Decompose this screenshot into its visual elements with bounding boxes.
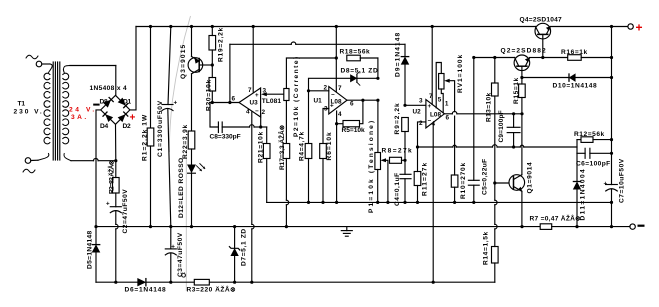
wire U2 pin2 with riser to feedback line [418,122,426,147]
svg-text:R19=2,2k: R19=2,2k [218,27,225,62]
capacitor C9 100pF [507,114,520,147]
wire bridge plus up to top rail [130,27,136,110]
wire drive line y57.5 (C5 top to Q2) [472,56,514,59]
resistor R22 3.9k [188,131,195,165]
resistor R15 1k [519,76,526,114]
svg-text:C5=0,22uF: C5=0,22uF [482,159,489,195]
resistor R2 82 ohm [113,161,120,207]
svg-text:+: + [330,103,334,110]
svg-text:2: 2 [419,120,423,127]
svg-text:2: 2 [262,109,266,116]
capacitor C8 330pF [210,103,267,133]
wire U1 pin2 [307,89,329,92]
wire bridge minus down to 0V rail [96,110,101,227]
output terminal minus [630,224,645,229]
AC input terminal top [26,55,50,67]
svg-text:R13=10k: R13=10k [486,92,493,122]
svg-text:4: 4 [246,109,250,116]
svg-text:1: 1 [445,101,449,108]
trimmer RV1 100k [439,74,455,148]
wire bridge bottom to R2 [115,124,117,160]
svg-text:−: − [428,118,432,125]
wire current-limit line to D9 (hop at 293.5) [230,42,405,44]
minus sign at bridge [93,104,99,106]
capacitor C6 100pF [577,140,613,159]
diode D2 (bottom-right edge) [118,112,128,122]
svg-text:R12=56k: R12=56k [574,131,605,138]
wire secondary top to bridge [70,66,116,96]
wire U2 pin3 [405,104,426,106]
wire feedback line y147 (pin2 node to R12/C6) [416,145,577,149]
resistor R21 10k [263,127,270,202]
svg-text:Ö: Ö [181,271,186,280]
wire U1 pin4 down to sense rail with R5 tap [335,111,338,204]
svg-text:R1=2,2k 1W: R1=2,2k 1W [142,114,149,161]
svg-text:TL081: TL081 [262,98,282,105]
svg-text:RV1=100k: RV1=100k [457,54,464,93]
svg-text:+: + [171,244,175,251]
wire U2 output to Q2 base column (hop over wiper) [444,112,523,116]
svg-text:5: 5 [438,97,442,104]
svg-text:R10=270k: R10=270k [460,162,467,199]
svg-text:7: 7 [338,85,342,92]
resistor R11 27k [414,147,421,202]
wire U3 pin4 down to negative rail [250,112,254,284]
op-amp U2 TL081 [413,100,445,129]
svg-text:R6=10k: R6=10k [326,132,333,161]
svg-text:U3: U3 [250,99,259,106]
svg-text:6: 6 [446,115,450,122]
potentiometer P1 10k (Tensione) [375,100,388,202]
AC input terminal bottom [23,158,38,173]
svg-text:D10=1N4148: D10=1N4148 [553,83,598,90]
wire U2 pin5 offset null [436,63,441,108]
svg-text:R14=1,5k: R14=1,5k [483,231,490,265]
zener D3 5.1 ZD line from pin2 node [309,72,380,91]
svg-text:R3=220 ÄŽÂ⊗: R3=220 ÄŽÂ⊗ [187,285,237,294]
scan crease artifact [169,16,190,291]
svg-text:R7 =0,47 ÄŽÂ⊗: R7 =0,47 ÄŽÂ⊗ [530,214,582,223]
resistor R14 1.5k [492,183,499,282]
wire U2 pin7 from top rail [431,27,433,105]
resistor R4 4.7k [305,91,312,203]
resistor R12 56k [577,137,613,143]
diode D10 1N4148 [522,74,613,81]
svg-text:R17=3,3 ÄŽÂ⊗: R17=3,3 ÄŽÂ⊗ [277,124,286,170]
negative aux rail C y282.2 [96,281,495,284]
svg-text:C8=330pF: C8=330pF [210,134,241,141]
wire U2 pin4 down to negative rail [432,122,435,283]
svg-text:U2: U2 [413,109,422,116]
wire U1 output [347,99,380,102]
diode D8 (top-left edge) [104,98,114,108]
svg-text:C7=10uF50V: C7=10uF50V [619,158,626,203]
svg-text:+: + [636,21,643,35]
wire U3 output [210,101,240,104]
resistor R16 1k [543,55,613,61]
wire U1 pin3 to R6 [323,109,329,144]
svg-text:R4=4,7k: R4=4,7k [299,131,306,161]
svg-text:+: + [106,201,110,208]
svg-text:R18=56k: R18=56k [340,49,371,56]
svg-text:Q1=9014: Q1=9014 [527,162,534,194]
diode D11 1N4004 [573,153,580,228]
bridge rectifier diamond 1N5408 x4 [101,95,130,124]
svg-text:P1=10k (Tensione): P1=10k (Tensione) [368,121,375,213]
transistor Q2 2SD882 [514,55,544,78]
transistor Q4 2SD1047 [535,23,551,57]
svg-text:R2=82 ÄŽÂ⊗: R2=82 ÄŽÂ⊗ [107,159,116,194]
0V rail B y226.6 with R7 current sense [94,225,540,228]
svg-text:C3=47uF50V: C3=47uF50V [177,232,184,277]
diode D9 1N4148 [401,44,408,105]
op-amp U3 TL081 [239,88,261,117]
svg-text:6: 6 [232,96,236,103]
capacitor C1 3300uF 50V [162,27,178,227]
transistor Q3 9015 (PNP) [188,27,212,132]
svg-text:D11=1N4004: D11=1N4004 [580,169,587,221]
resistor R3 220 ohm (in rail) [194,279,209,285]
op-amp U1 TL081 [314,87,348,115]
svg-text:R16=1k: R16=1k [561,49,588,56]
zener D7 5.1 ZD [229,225,239,282]
svg-text:T1: T1 [18,101,26,108]
svg-text:D7=5,1 ZD: D7=5,1 ZD [241,229,248,266]
svg-text:2: 2 [324,85,328,92]
resistor R18 56k [347,55,378,78]
transistor Q1 9014 [493,114,524,227]
svg-text:C9=100pF: C9=100pF [498,110,505,142]
svg-text:6: 6 [350,101,354,108]
svg-text:1N5408 x 4: 1N5408 x 4 [90,85,128,92]
svg-text:3: 3 [419,98,423,105]
wire U3 pin2 riser [260,115,262,128]
resistor R8 27k [390,157,407,163]
transformer T1 [38,62,71,161]
diode D4 (bottom-left edge) [103,112,113,122]
capacitor C3 47uF 50V [165,227,176,283]
output terminal plus [628,21,643,35]
resistor R6 10k [320,144,327,203]
svg-text:D4: D4 [100,123,109,130]
capacitor C7 10uF 50V (output) [604,27,618,229]
svg-text:R21=10k: R21=10k [258,131,265,163]
svg-text:R5=10k: R5=10k [342,127,366,134]
resistor R5 10k (feedback) [337,100,363,127]
wire U3 pin3 to P2 wiper [261,92,284,96]
svg-text:Q4=2SD1047: Q4=2SD1047 [520,17,563,24]
svg-text:−: − [255,108,259,115]
LED D12 ROSSO [188,164,206,227]
svg-text:+: + [604,181,608,188]
svg-text:D5=1N4148: D5=1N4148 [87,230,94,269]
svg-text:+: + [174,100,178,107]
svg-text:C1=3300uF50V: C1=3300uF50V [157,100,164,157]
capacitor C2 47uF 50V [106,201,121,284]
svg-text:4: 4 [338,111,342,118]
svg-text:D1: D1 [123,98,132,105]
diode D6 1N4148 (in rail) [138,279,146,286]
wire U3 output riser to current line [229,44,231,102]
svg-text:R15=1k: R15=1k [513,77,520,104]
svg-text:+: + [428,103,432,110]
svg-text:C6=100pF: C6=100pF [576,161,610,168]
resistor R9 2.2k [402,104,409,161]
svg-text:D12=LED ROSSO: D12=LED ROSSO [178,158,185,218]
svg-text:+: + [255,92,259,99]
svg-text:R22=3,9k: R22=3,9k [182,124,189,159]
svg-text:Q2=2SD882: Q2=2SD882 [501,48,547,55]
wire U1 pin7 from top rail [335,27,338,92]
svg-text:7: 7 [248,87,252,94]
svg-text:U1: U1 [314,98,323,105]
diode D1 (top-right edge) [118,98,128,108]
svg-text:D6=1N4148: D6=1N4148 [125,287,167,294]
svg-text:D9=1N4148: D9=1N4148 [395,32,402,77]
resistor R1 2.2k 1W [147,27,154,227]
sense rail A y202.4 [267,201,612,204]
capacitor C4 0.1uF [400,160,411,202]
top positive rail [136,25,628,28]
resistor R17 3.3ohm [283,144,290,229]
svg-text:R20=10k: R20=10k [206,79,213,111]
svg-text:D2: D2 [123,123,132,130]
diode D5 1N4148 [92,227,99,283]
potentiometer P2 10k (Corrente) [284,58,337,144]
resistor R7 0.47 ohm (in 0V rail) [540,224,630,230]
svg-text:−: − [331,92,335,99]
resistor R10 270k [451,147,458,202]
svg-text:C4=0,1uF: C4=0,1uF [394,173,401,206]
capacitor C5 0.22uF [468,58,479,203]
svg-text:D8: D8 [100,98,109,105]
svg-text:+: + [130,113,136,124]
svg-text:D8=5,1 ZD: D8=5,1 ZD [341,68,378,75]
resistor R19 2.2k [209,27,216,67]
ground symbol [341,227,352,237]
resistor R20 10k [209,65,216,103]
svg-text:C2=47uF50V: C2=47uF50V [122,189,129,234]
wire secondary bottom to bridge bottom (hop over minus line) [71,158,117,162]
svg-text:3A.: 3A. [71,114,86,121]
svg-text:L08: L08 [430,112,441,119]
wire U3 pin7 from top rail [252,27,254,93]
resistor R13 10k [492,58,499,184]
label 24V 3A (red) [69,107,94,121]
